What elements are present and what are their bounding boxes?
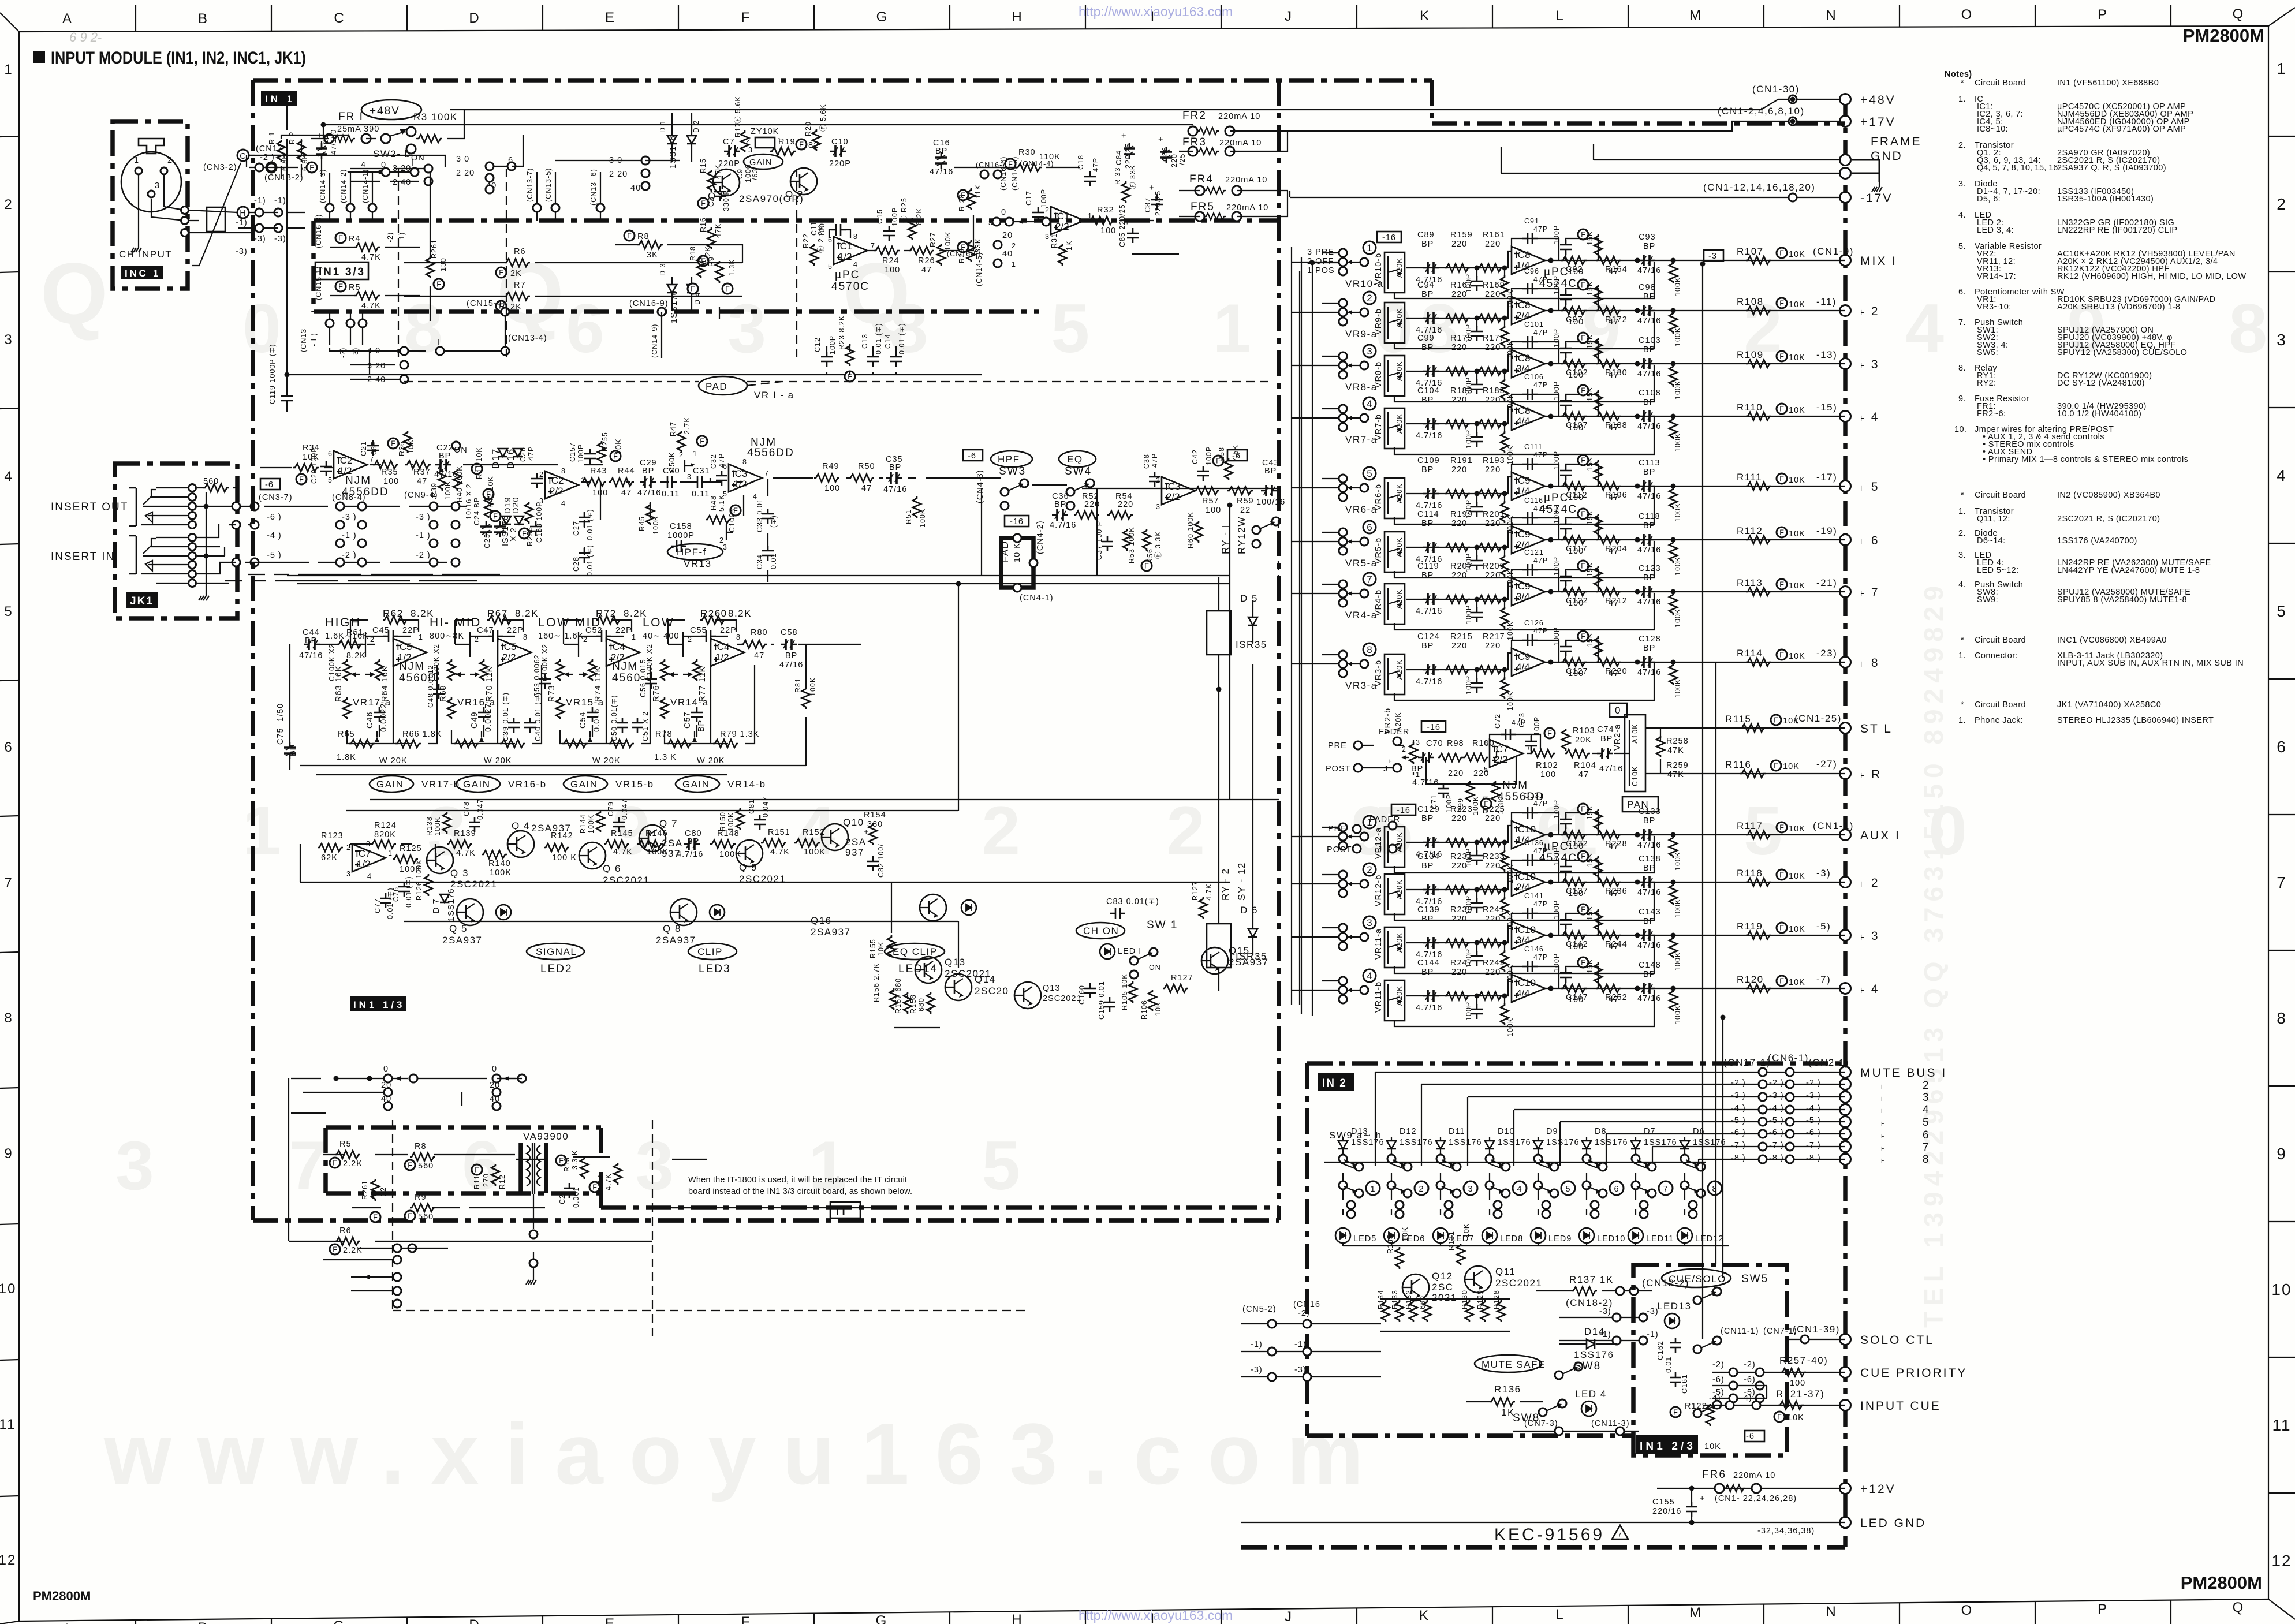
svg-text:Q13: Q13 [945,957,966,968]
svg-text:C109: C109 [1417,456,1440,465]
svg-text:-3): -3) [1816,868,1831,879]
svg-text:VR6-a: VR6-a [1345,504,1378,515]
svg-text:560: 560 [203,477,219,486]
svg-text:R258: R258 [1666,737,1689,746]
svg-text:-3): -3) [1599,1307,1611,1316]
svg-text:2: 2 [4,197,13,212]
svg-text:4574C: 4574C [1539,852,1577,864]
svg-text:2/4: 2/4 [1516,882,1530,893]
svg-text:-3 ): -3 ) [1806,1091,1821,1100]
svg-text:VR3~10:: VR3~10: [1977,303,2012,312]
svg-text:3: 3 [1045,233,1050,241]
svg-text:R18: R18 [689,246,697,261]
svg-text:R112: R112 [1737,525,1763,536]
svg-text:20: 20 [1002,231,1013,240]
svg-text:D7: D7 [1644,1127,1656,1136]
R60 100K [1195,521,1203,543]
svg-text:C99: C99 [1417,334,1435,343]
svg-text:NJM: NJM [1502,779,1528,792]
svg-text:(CN18-2): (CN18-2) [264,173,304,182]
svg-text:K: K [1419,1608,1430,1623]
trunk verticals into IN2 [1703,264,1723,1339]
svg-text:2: 2 [1923,1080,1930,1092]
svg-text:3: 3 [687,473,692,481]
-16 box [1421,721,1446,732]
svg-text:R137 1K: R137 1K [1569,1274,1614,1285]
svg-text:-13): -13) [1816,349,1837,360]
R102 100 R104 47 [1530,749,1555,757]
svg-text:PRE: PRE [1328,741,1347,751]
svg-text:Q 9: Q 9 [739,862,757,873]
light dashed vertical [393,1120,652,1339]
svg-text:10: 10 [2271,1280,2292,1298]
svg-text:Ⓕ R25: Ⓕ R25 [900,197,908,223]
svg-text:R50: R50 [858,462,875,471]
svg-text:11: 11 [2272,1416,2291,1434]
Q1 Q2 2SA970 [713,169,740,196]
svg-text:C25: C25 [483,533,491,548]
svg-text:*: * [1961,79,1964,88]
svg-text:0.01: 0.01 [770,553,778,569]
svg-text:http://www.xiaoyu163.com: http://www.xiaoyu163.com [1079,1608,1233,1623]
svg-text:2.2K: 2.2K [343,1159,363,1168]
terminal ˫ 2 [1840,877,1851,888]
mix strip 8: pot VR3, op-amp IC9 4/4, summing resistor R114 [1292,619,1845,711]
svg-text:R62: R62 [383,608,404,619]
svg-text:R22: R22 [802,233,810,248]
svg-text:R164: R164 [1605,265,1628,274]
svg-text:47P: 47P [527,446,535,461]
svg-text:R145: R145 [611,829,633,838]
svg-text:8: 8 [2277,1009,2287,1027]
svg-text:P: P [2098,1601,2108,1617]
svg-text:R249: R249 [1483,958,1505,968]
terminal ˫ 2 [1840,305,1851,316]
svg-text:0.11: 0.11 [662,490,680,499]
svg-text:8: 8 [853,233,858,241]
wire: frame gnd feeders [1501,144,1839,173]
svg-text:4: 4 [561,499,566,507]
svg-text:VR17-b: VR17-b [421,779,460,790]
LED2 SIGNAL [496,905,511,920]
svg-text:(CN3-2): (CN3-2) [203,163,237,172]
svg-text:D13: D13 [1351,1127,1368,1136]
svg-text:IC1: IC1 [1054,211,1069,222]
svg-text:W 20K: W 20K [697,756,725,766]
svg-text:-4): -4) [1709,1394,1721,1403]
PAD oval, VR1-a [699,376,747,395]
svg-text:C27: C27 [572,521,580,536]
terminal LED GND [1840,1517,1851,1528]
R81 100K [802,687,810,709]
svg-text:POST: POST [1326,764,1350,774]
R145 R146 [604,840,629,848]
svg-text:PAD: PAD [706,381,727,392]
C72 47P feedback [1490,734,1540,757]
svg-text:SW4: SW4 [1065,465,1092,477]
svg-text:-6): -6) [1712,1375,1725,1384]
wire rows [289,1155,707,1241]
svg-text:Q11: Q11 [1495,1266,1516,1277]
svg-text:10K: 10K [1704,1442,1721,1451]
svg-text:R175: R175 [1450,334,1473,343]
svg-text:R23 8.2K: R23 8.2K [838,315,846,350]
svg-text:0.01 (∓): 0.01 (∓) [898,323,906,354]
svg-text:R123: R123 [321,831,344,841]
svg-text:R73: R73 [547,685,557,702]
svg-text:8.2K: 8.2K [515,608,539,619]
R15 R16 47K [707,170,715,192]
svg-text:CUE PRIORITY: CUE PRIORITY [1860,1367,1967,1380]
circuit board outline IN12/3 (dash-dot) [1633,1265,1787,1455]
svg-text:R115: R115 [1725,714,1751,725]
Q10 2SA937 [822,824,848,850]
svg-text:LED9: LED9 [1548,1234,1572,1244]
svg-text:7: 7 [1367,574,1372,585]
wire: insert rows to module [197,506,500,581]
terminal ˫ 3 [1840,359,1851,369]
svg-text:C121: C121 [1524,548,1544,557]
node H [237,207,249,218]
svg-text:0.015: 0.015 [592,708,602,732]
R20 5.6K [812,129,820,151]
svg-text:R154: R154 [864,811,886,820]
svg-text:SW3: SW3 [999,465,1026,477]
svg-text:6: 6 [4,740,13,755]
svg-text:3.3 K: 3.3 K [571,1150,579,1170]
svg-text:CH ON: CH ON [1083,925,1119,936]
svg-text:C79: C79 [607,801,615,816]
svg-text:Ⓕ 3.3K: Ⓕ 3.3K [1154,531,1162,559]
svg-text:R37: R37 [413,468,431,477]
C22 BP [435,459,451,471]
svg-text:IC8: IC8 [1515,300,1530,311]
wires hpf row [260,465,742,520]
pins CN7-3 CN11-3 [1555,1427,1563,1435]
svg-text:2SC2021: 2SC2021 [603,875,650,886]
svg-text:µPC: µPC [835,269,860,281]
svg-text:R158: R158 [909,994,917,1014]
svg-text:C33 0.01: C33 0.01 [756,498,764,532]
svg-text:C81: C81 [748,799,756,814]
frame left vertical [18,32,20,1621]
svg-text:R 1: R 1 [268,132,276,144]
svg-text:W 20K: W 20K [379,756,408,766]
svg-text:C100K X2: C100K X2 [328,644,336,681]
svg-text:-1): -1) [1294,1340,1307,1349]
svg-text:2: 2 [475,636,479,644]
svg-text:C28: C28 [572,557,580,572]
svg-text:R74 11K: R74 11K [594,666,603,702]
R47 2.7K [677,431,685,453]
svg-text:R139: R139 [454,829,476,838]
svg-text:C104: C104 [1417,386,1440,395]
svg-text:47: 47 [921,266,932,275]
svg-text:R78: R78 [655,730,673,739]
svg-text:R7: R7 [514,281,526,290]
svg-text:-3): -3) [1294,1365,1307,1375]
svg-text:HPF: HPF [998,454,1020,465]
svg-text:EQ: EQ [1067,454,1083,465]
svg-text:LED13: LED13 [1657,1301,1691,1312]
svg-text:1/2: 1/2 [838,251,852,262]
svg-text:Q 5: Q 5 [449,923,468,934]
svg-text:µPC: µPC [1544,266,1569,278]
svg-text:C123: C123 [1639,564,1661,573]
wire: long verticals [958,271,1300,1005]
svg-text:5: 5 [1565,1185,1570,1194]
opamp IC1 2/2 [1051,207,1084,234]
svg-text:6: 6 [723,462,727,471]
svg-text:R8: R8 [415,1142,427,1151]
svg-text:-2 ): -2 ) [342,551,357,560]
svg-text:C10: C10 [831,137,849,147]
svg-text:2SC: 2SC [1432,1282,1454,1293]
svg-text:C141: C141 [1524,892,1544,900]
svg-text:LED GND: LED GND [1860,1517,1926,1530]
svg-text:R41 10K: R41 10K [475,447,483,479]
phone jack board outline JK1 (dash-dot) [115,464,237,618]
svg-text:C18: C18 [1077,155,1085,170]
svg-text:R120: R120 [1737,974,1764,985]
svg-text:BP: BP [1643,521,1655,531]
svg-text:R39: R39 [430,483,438,498]
R28 11K R29 33K [967,188,975,210]
svg-text:8.: 8. [1958,364,1966,373]
svg-text:A20K: A20K [1395,985,1404,1006]
svg-text:VR2-a: VR2-a [1613,724,1622,751]
svg-text:6: 6 [1923,1129,1930,1141]
C37 100P R53 100K R56 3.3K [1102,536,1113,551]
board label IN2 [1318,1073,1354,1091]
svg-text:68P: 68P [370,440,378,455]
svg-text:C73: C73 [1518,712,1526,727]
svg-text:(∓): (∓) [770,515,778,528]
svg-text:-1): -1) [236,218,248,227]
svg-text:3: 3 [1923,1092,1930,1104]
svg-text:-6: -6 [968,451,976,461]
svg-text:C148: C148 [1639,961,1661,970]
R2 6.8K [297,140,305,162]
svg-text:2SC2021 R, S (IC202170): 2SC2021 R, S (IC202170) [2057,514,2160,524]
svg-text:0: 0 [492,1065,497,1074]
selector circles bottom [393,1244,401,1252]
svg-text:O: O [1961,7,1973,23]
svg-text:C51 X 2: C51 X 2 [641,711,650,741]
svg-text:-32,34,36,38): -32,34,36,38) [1757,1526,1815,1536]
svg-text:INPUT CUE: INPUT CUE [1860,1399,1941,1413]
svg-text:2SC2021: 2SC2021 [1043,994,1081,1003]
C17 100P R31 1K [1032,207,1044,222]
svg-text:22: 22 [1240,506,1251,515]
svg-text:R47: R47 [669,421,677,436]
svg-text:BP: BP [1600,734,1613,744]
R49 R50 C35 after IC3 [814,474,839,482]
svg-text:R49: R49 [822,462,839,471]
svg-text:LED10: LED10 [1597,1234,1625,1244]
svg-text:1000P: 1000P [667,531,695,540]
svg-text:ZY10K: ZY10K [751,127,779,136]
svg-text:˫ 8: ˫ 8 [1860,656,1880,670]
svg-text:0.11: 0.11 [692,490,710,499]
svg-text:LED I: LED I [1118,947,1141,956]
svg-text:R81: R81 [794,678,802,693]
circuit board outline IT (dash-dot) [326,1128,601,1193]
svg-text:0.01 (∓): 0.01 (∓) [875,323,883,354]
svg-text:-40): -40) [1807,1355,1828,1366]
svg-text:-2): -2) [1744,1360,1756,1369]
R4 4.7K [335,233,346,243]
svg-text:2SC2021: 2SC2021 [450,879,497,890]
svg-text:C31: C31 [693,466,710,476]
D17 D16 diodes [498,449,507,457]
wire: phantom rail [281,135,348,179]
pins -3 -1 into board [1613,1313,1621,1321]
svg-text:R257: R257 [1779,1355,1807,1366]
svg-text:M: M [1689,1605,1702,1621]
svg-text:-1 ): -1 ) [342,531,357,540]
row numbers left [0,62,16,1568]
svg-text:-4 ): -4 ) [1769,1104,1784,1113]
svg-text:A: A [62,1621,73,1624]
svg-text:R6: R6 [339,1226,352,1235]
R13 3.3K R14 4.7K C2 0.001 [556,1155,566,1166]
R35 100 R37 47 [373,461,398,469]
svg-text:C102: C102 [1566,368,1588,378]
svg-text:1: 1 [388,849,393,857]
svg-text:D 1: D 1 [659,120,667,133]
svg-text:2.2K: 2.2K [343,1246,363,1255]
svg-text:FR2~6:: FR2~6: [1977,409,2006,419]
svg-text:100K: 100K [490,868,512,878]
svg-text:R98: R98 [1447,739,1464,748]
svg-text:IC9: IC9 [1515,581,1530,592]
svg-text:1: 1 [1370,1185,1375,1194]
svg-text:J: J [1285,1609,1293,1624]
svg-text:Q 3: Q 3 [450,868,469,879]
pre/post select pins stereo fader [1354,741,1362,749]
svg-text:-6 ): -6 ) [1769,1128,1784,1137]
wire: -17V rail [1132,191,1839,254]
svg-text:(CN1-39): (CN1-39) [1793,1324,1840,1335]
svg-text:2/2: 2/2 [1055,221,1069,232]
svg-text:˫: ˫ [1389,756,1393,766]
svg-text:130: 130 [439,257,447,271]
EQ bypass switch [1252,517,1280,534]
mix strip 1: pot VR10, op-amp IC8 1/4, summing resistor R107 [1292,217,1854,309]
svg-text:R110: R110 [1737,402,1763,413]
svg-text:R60 100K: R60 100K [1186,512,1195,548]
svg-text:(CN13 -6): (CN13 -6) [589,169,598,206]
svg-text:BP: BP [1643,864,1655,873]
svg-text:R256: R256 [526,527,534,546]
svg-text:47: 47 [861,484,872,493]
svg-text:C128: C128 [1639,634,1661,644]
svg-text:4: 4 [1367,398,1372,409]
svg-text:ON: ON [1149,964,1161,972]
C33 C34 [762,509,774,524]
svg-text:D: D [469,10,480,26]
svg-text:40∼ 400: 40∼ 400 [643,632,680,641]
svg-text:SW5:: SW5: [1977,348,1998,357]
R39 R40 100K [438,469,446,491]
circuit board outline IN2 (dash-dot) [1307,1063,1845,1436]
svg-text:C56 0.015: C56 0.015 [639,659,647,697]
svg-text:1: 1 [2277,59,2287,77]
svg-text:D: D [469,1617,480,1624]
column letters bottom [62,1600,2244,1624]
svg-text:160∼ 1.6K: 160∼ 1.6K [538,632,584,641]
svg-text:C89: C89 [1417,230,1435,240]
terminal ˫ 5 [1840,481,1851,492]
svg-text:R66 1.8K: R66 1.8K [402,730,442,739]
svg-text:47P: 47P [1151,453,1159,468]
mute bus terminals [1840,1067,1851,1078]
C12 R23 C13 C14 row [821,352,833,367]
svg-text:NJM: NJM [399,660,425,673]
row ticks right [2268,136,2295,1493]
svg-text:C138: C138 [1639,854,1661,864]
svg-text:220/16: 220/16 [1652,1507,1681,1516]
Q3 2SC2021 [427,847,453,873]
diodes D3 D4 1SS176 [667,285,677,293]
svg-text:40: 40 [1002,249,1013,259]
svg-text:R19: R19 [778,137,796,147]
svg-text:D14: D14 [1584,1326,1605,1337]
svg-text:D 6: D 6 [1240,905,1258,916]
svg-text:-16: -16 [1010,517,1024,527]
svg-text:Phone Jack:: Phone Jack: [1975,716,2023,725]
svg-text:D10: D10 [1498,1127,1515,1136]
svg-text:C15: C15 [876,209,884,224]
svg-text:C132: C132 [1566,839,1588,849]
svg-text:-1): -1) [274,196,286,206]
R61 8.2K [337,640,363,648]
svg-text:1/50: 1/50 [276,703,285,722]
R115 R116 [1740,724,1766,732]
svg-text:C157: C157 [569,442,577,462]
svg-text:4: 4 [2277,466,2287,484]
svg-text:1SS176: 1SS176 [1693,1138,1726,1147]
svg-text:C111: C111 [1524,443,1543,451]
column ticks bottom [136,1600,2171,1624]
svg-text:3 0: 3 0 [456,155,469,164]
R103 20K [1562,729,1570,751]
svg-text:2 20: 2 20 [609,170,628,179]
svg-text:100K: 100K [652,516,660,535]
svg-text:100: 100 [1540,770,1556,779]
svg-text:2: 2 [1402,745,1406,753]
svg-text:C137: C137 [1566,887,1588,896]
svg-text:Notes): Notes) [1945,70,1972,79]
svg-text:www.xiaoyu163.com: www.xiaoyu163.com [103,1405,1390,1502]
svg-text:10.0 1/2 (HW404100): 10.0 1/2 (HW404100) [2057,409,2141,419]
svg-text:R138: R138 [426,816,434,836]
EQ band HI- MID: op-amp IC5 2/2, pot VR16-a [430,608,542,766]
svg-text:BP: BP [785,651,797,660]
svg-text:-4 ): -4 ) [1806,1104,1821,1113]
svg-text:100K: 100K [944,232,952,251]
svg-text:9: 9 [4,1146,13,1162]
svg-text:C146: C146 [1524,945,1544,953]
svg-text:R223: R223 [1450,805,1473,814]
svg-text:+17V: +17V [1860,115,1896,129]
svg-text:5: 5 [1367,468,1372,479]
svg-text:BP: BP [1411,764,1423,774]
svg-text:IN1 3/3: IN1 3/3 [319,266,365,278]
svg-text:Ⓕ 5.6K: Ⓕ 5.6K [819,104,827,132]
mute switch column 2: diode D12 1SS176, switch SW9, LED6 [1384,1127,1433,1244]
